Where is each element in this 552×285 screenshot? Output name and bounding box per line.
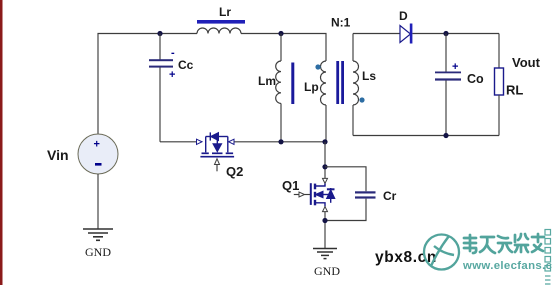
- gate lead with open arrow: [215, 159, 220, 165]
- gate bar: [310, 183, 312, 205]
- right terminal open arrow: [229, 139, 234, 144]
- drain connection: [315, 183, 325, 186]
- gate lead with open arrow: [294, 194, 299, 196]
- node dot Co bottom: [443, 133, 448, 138]
- node dot at Lm top: [278, 31, 283, 36]
- transformer core bars: [336, 61, 339, 104]
- middle bulk arrow: [216, 137, 218, 145]
- svg-text:GND: GND: [314, 264, 340, 278]
- node dot Lm bottom: [278, 139, 283, 144]
- wire: Lp bottom down to Q1: [324, 142, 326, 179]
- svg-text:RL: RL: [506, 83, 523, 98]
- svg-text:Ls: Ls: [362, 69, 376, 83]
- wire: Q1 source to ground: [324, 212, 326, 249]
- node dot Q1 bottom: [322, 218, 327, 223]
- middle connection with bulk arrow: [315, 194, 331, 196]
- transformer primary Lp: [321, 61, 327, 142]
- node dot Co top: [443, 31, 448, 36]
- svg-text:www.elecfans.com: www.elecfans.com: [462, 260, 552, 272]
- wire: Vin bottom to ground: [97, 174, 99, 229]
- wire: top rail Lr right to Lp top: [241, 34, 326, 62]
- wire: top rail left from Vin to Lr: [98, 34, 197, 135]
- inductor Lm: [276, 34, 281, 142]
- Lr core bar: [197, 20, 245, 24]
- svg-text:Cc: Cc: [178, 58, 194, 72]
- svg-text:Q2: Q2: [226, 164, 243, 179]
- ground GND mid: [313, 249, 337, 259]
- capacitor Co: [435, 34, 461, 136]
- Lp polarity dot: [315, 64, 320, 69]
- svg-text:-: -: [171, 47, 175, 59]
- svg-text:N:1: N:1: [331, 16, 351, 30]
- svg-text:Co: Co: [467, 72, 484, 86]
- svg-text:Vout: Vout: [512, 55, 541, 70]
- inductor Lr: [197, 28, 241, 33]
- channel segments: [202, 152, 234, 154]
- transistor Q2: [197, 132, 235, 171]
- top terminal open arrow: [323, 178, 328, 183]
- capacitor Cr: [355, 191, 376, 198]
- right edge vertical watermark: [545, 230, 551, 285]
- svg-text:GND: GND: [85, 245, 111, 259]
- svg-text:Lr: Lr: [219, 5, 231, 19]
- source connection: [315, 203, 325, 207]
- wire: diode to right rail: [413, 33, 500, 35]
- svg-text:+: +: [169, 69, 175, 81]
- channel segments: [314, 184, 316, 206]
- transistor Q1: [294, 178, 335, 211]
- gate bar: [200, 156, 234, 158]
- Lm core bar: [291, 63, 294, 105]
- left red edge strip: [0, 0, 3, 285]
- watermark chinese text 电子发烧友: [464, 234, 544, 253]
- diode D: [400, 24, 412, 44]
- svg-text:Cr: Cr: [383, 189, 397, 203]
- node dot Cr top branch: [322, 164, 327, 169]
- wire: right rail: [498, 34, 500, 69]
- svg-text:D: D: [399, 9, 408, 23]
- legs: [205, 137, 207, 153]
- watermark elecfans logo: [424, 235, 459, 270]
- svg-text:Lp: Lp: [304, 80, 319, 94]
- capacitor Cc: [149, 34, 175, 142]
- ground GND left: [83, 229, 113, 240]
- left terminal open arrow: [197, 139, 203, 144]
- svg-text:Vin: Vin: [47, 147, 69, 163]
- source Vin: [78, 134, 118, 174]
- svg-text:+: +: [452, 61, 458, 73]
- wire: Cr top branch: [325, 167, 366, 192]
- body diode: [330, 188, 332, 203]
- node dot Lp bottom: [322, 139, 327, 144]
- resistor RL: [495, 68, 504, 95]
- bottom terminal open arrow: [323, 207, 328, 212]
- wire: secondary bottom rail: [353, 135, 499, 137]
- svg-text:Lm: Lm: [258, 74, 276, 88]
- Ls polarity dot: [359, 97, 364, 102]
- top line with body diode: [206, 136, 211, 138]
- wire: Cr bottom branch: [325, 199, 366, 221]
- node dot at Cc top: [157, 31, 162, 36]
- wire: secondary top rail to diode: [353, 33, 400, 35]
- wire: Q2 row: [160, 141, 197, 143]
- transformer secondary Ls: [353, 34, 359, 136]
- svg-text:+: +: [94, 139, 100, 151]
- svg-text:Q1: Q1: [282, 178, 299, 193]
